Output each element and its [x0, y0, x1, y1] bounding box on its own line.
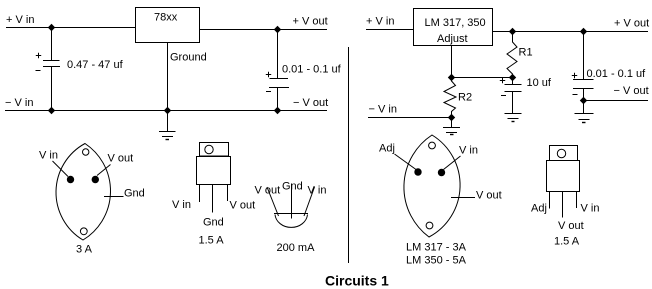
ground symbol under C3 [505, 114, 522, 122]
Q4 pin Adj dot [414, 168, 421, 175]
junction R2 bottom [448, 114, 455, 121]
resistor R2 [444, 78, 456, 118]
Q2 leg V in [199, 184, 201, 202]
svg-text:0.01 - 0.1 uf: 0.01 - 0.1 uf [282, 64, 342, 76]
Q4 pin V in dot [438, 169, 445, 176]
svg-text:− V in: − V in [369, 104, 397, 116]
svg-text:Adj: Adj [379, 143, 395, 155]
wire -V in rail (right circuit) [368, 117, 452, 119]
junction -V rail at ground pin [164, 107, 171, 114]
package Q2 TO-220 tab (78xx 1.5A) [200, 143, 229, 157]
svg-text:Gnd: Gnd [282, 181, 303, 193]
polarity - of C2 [266, 91, 271, 93]
Q4 mounting hole top [429, 142, 436, 149]
svg-text:V out: V out [230, 200, 256, 212]
svg-text:V in: V in [459, 145, 478, 157]
junction adjust node at R2 [448, 74, 455, 81]
Q1 pin V in dot [67, 176, 74, 183]
Q2 tab hole [205, 145, 213, 153]
ground symbol (left circuit) [159, 111, 176, 140]
wire adjust node to R1 bottom [452, 77, 513, 79]
svg-text:Gnd: Gnd [203, 217, 224, 229]
wire +V in to regulator U1 [6, 27, 136, 29]
svg-text:Ground: Ground [170, 52, 207, 64]
svg-text:R2: R2 [458, 92, 472, 104]
svg-text:V in: V in [172, 199, 191, 211]
capacitor C4 plates [573, 80, 594, 89]
svg-text:− V in: − V in [5, 97, 33, 109]
Q5 tab hole [557, 149, 565, 157]
wire C4 bottom stem [583, 89, 585, 101]
package Q5 TO-220 tab (LM317 1.5A) [550, 146, 578, 161]
svg-text:1.5 A: 1.5 A [554, 236, 580, 248]
svg-text:LM 350 - 5A: LM 350 - 5A [406, 255, 467, 267]
Q1 mounting hole top [83, 149, 89, 155]
svg-text:1.5 A: 1.5 A [199, 235, 225, 247]
capacitor C3 10uf plates [505, 85, 522, 92]
Q5 body [547, 161, 580, 192]
junction output cap top (right circuit) [580, 28, 587, 35]
svg-text:Circuits 1: Circuits 1 [325, 273, 389, 289]
svg-text:V in: V in [39, 150, 58, 162]
wire +V in to regulator U2 [366, 29, 414, 31]
Q4 mounting hole bottom [426, 222, 433, 229]
Q3 lead V in [304, 187, 315, 216]
Q3 lead V out [267, 187, 279, 216]
polarity - of C3 [501, 95, 506, 97]
regulator U1 78xx box [136, 8, 200, 43]
wire U2 adjust pin [451, 46, 453, 78]
Q1 mounting hole bottom [80, 228, 87, 235]
regulator U2 LM317/350 box [414, 9, 493, 46]
svg-text:− V out: − V out [293, 97, 328, 109]
Q2 leg Gnd [212, 184, 214, 213]
svg-text:V out: V out [558, 220, 584, 232]
svg-text:Adj: Adj [531, 203, 547, 215]
svg-text:R1: R1 [519, 47, 533, 59]
svg-text:LM 317, 350: LM 317, 350 [425, 17, 486, 29]
Q4 leader V out [451, 197, 475, 199]
package Q3 TO-92 case (78xx 200mA) [274, 214, 308, 228]
wire C1 bottom to -V rail [51, 67, 53, 111]
package Q1 TO-3 case (78xx 3A) [56, 144, 110, 241]
svg-text:V in: V in [581, 203, 600, 215]
svg-text:V out: V out [476, 190, 502, 202]
svg-text:+ V out: + V out [614, 18, 649, 30]
junction R1 bottom / C3 top [509, 74, 516, 81]
svg-text:V in: V in [308, 185, 327, 197]
wire C3 stems [512, 78, 514, 114]
wire junction to capacitor C1 [51, 28, 53, 61]
svg-text:V out: V out [108, 153, 134, 165]
polarity - of C1 [36, 70, 41, 72]
Q1 leader V out [97, 165, 111, 176]
wire U1 output to +V out [200, 29, 328, 31]
Q1 leader Gnd [104, 196, 124, 198]
polarity + of C1 [36, 53, 41, 58]
ground symbol under C4 [575, 101, 594, 123]
Q4 leader V in [444, 156, 461, 170]
svg-text:Gnd: Gnd [124, 188, 145, 200]
svg-text:+ V in: + V in [6, 14, 34, 26]
polarity - of C4 [573, 94, 578, 96]
Q2 leg V out [227, 184, 229, 201]
wire junction to capacitor C2 [277, 30, 279, 79]
wire U2 output to +V out [493, 31, 649, 33]
Q2 body [197, 157, 231, 185]
Q1 leader V in [53, 161, 69, 177]
svg-text:10 uf: 10 uf [527, 77, 552, 89]
svg-text:LM 317 - 3A: LM 317 - 3A [406, 242, 467, 254]
svg-text:0.47 - 47 uf: 0.47 - 47 uf [67, 59, 124, 71]
package Q4 TO-3 case (LM317) [404, 135, 460, 237]
junction C4 bottom [580, 97, 587, 104]
svg-text:3 A: 3 A [76, 244, 93, 256]
svg-text:+ V out: + V out [293, 16, 328, 28]
svg-text:V out: V out [255, 185, 281, 197]
svg-text:− V out: − V out [614, 85, 649, 97]
wire +V out rail to capacitor C4 [583, 32, 585, 80]
polarity + of C3 [500, 78, 505, 83]
svg-text:78xx: 78xx [154, 12, 178, 24]
svg-text:0.01 - 0.1 uf: 0.01 - 0.1 uf [587, 68, 647, 80]
svg-text:+ V in: + V in [366, 16, 394, 28]
Q5 leg Adj [549, 192, 551, 209]
Q5 leg V out [562, 192, 564, 218]
wire -V rail (left circuit) [5, 110, 327, 112]
svg-text:200 mA: 200 mA [277, 242, 316, 254]
divider line between circuits [348, 47, 350, 263]
polarity + of C4 [572, 73, 577, 78]
polarity + of C2 [266, 72, 271, 77]
capacitor C1 plates [43, 61, 60, 67]
svg-text:Adjust: Adjust [437, 33, 468, 45]
junction -V rail at C2 [274, 107, 281, 114]
capacitor C2 plates [269, 79, 289, 88]
Q5 leg V in [576, 192, 578, 208]
Q4 leader Adj [395, 154, 417, 170]
junction -V rail at C1 [48, 107, 55, 114]
junction R1 top [509, 28, 516, 35]
wire U1 ground pin [167, 43, 169, 111]
wire -V out (right circuit) [584, 100, 649, 102]
junction output cap top [274, 26, 281, 33]
wire C2 bottom to -V rail [277, 88, 279, 111]
Q1 pin V out dot [92, 176, 99, 183]
ground symbol under R2 [443, 118, 460, 135]
Q3 lead Gnd [291, 184, 293, 219]
resistor R1 [507, 32, 517, 78]
junction input cap top [48, 24, 55, 31]
